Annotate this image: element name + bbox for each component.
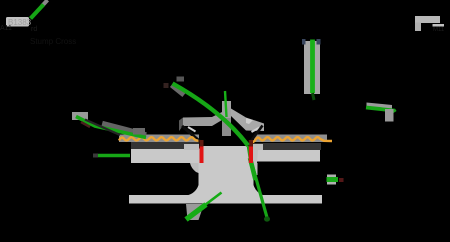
road: fillet light gray near right red bar xyxy=(253,144,263,150)
green: vertical thin line at center stub xyxy=(225,91,227,117)
svg-text:M11: M11 xyxy=(433,27,445,33)
label: top-left diagonal with gray casing stub xyxy=(42,0,48,6)
red bar: right gate (dark top) xyxy=(249,140,253,147)
funnel: left black stroke xyxy=(182,126,200,142)
casing band along west green route xyxy=(102,124,146,136)
faint marks near diagonal tip xyxy=(177,77,185,82)
road top blue-dark marks flanking xyxy=(302,39,306,45)
green: arrow A (fat end) xyxy=(186,205,206,220)
red bar: right gate (bright) xyxy=(249,147,253,164)
funnel: left white streak xyxy=(188,127,196,132)
road: junction mouth vertical road (upper, between gates) xyxy=(204,146,249,164)
road: bottom horizontal road xyxy=(129,195,322,204)
road: east short segment casing xyxy=(367,103,393,110)
green: dark blob at end of route xyxy=(264,216,270,221)
road: left casing band under zigzag xyxy=(119,135,199,143)
road: top-right vertical road casing xyxy=(304,41,320,94)
zigzag: left orange level crossing marks xyxy=(119,137,199,140)
zigzag: right orange level crossing marks xyxy=(250,137,333,146)
ramp: left ramp light section to center xyxy=(183,112,222,126)
green: horizontal stub west of road end xyxy=(93,154,98,158)
road: fillet bottom-right of vertical road xyxy=(254,185,265,196)
red bar: left gate (bright) xyxy=(200,147,204,164)
green: small segment bottom-right with casing xyxy=(327,175,336,185)
road: fillet light gray near left red bar xyxy=(184,144,199,150)
green: west route segment near box xyxy=(72,112,88,120)
svg-text:rd: rd xyxy=(31,26,37,33)
label dash: top-right xyxy=(433,24,445,27)
dark diagonal under west green xyxy=(85,120,120,136)
funnel: right black stroke xyxy=(251,126,263,142)
road: top main road left segment (light surface) xyxy=(131,149,200,164)
green: fat section at top of lower route xyxy=(250,158,256,180)
road: gray stub below east segment xyxy=(385,109,394,122)
road: top main road right dark upper band xyxy=(254,143,321,150)
road: fillet bottom-left of vertical road xyxy=(187,185,199,196)
green: vertical route on top-right road xyxy=(310,40,315,94)
green: east short route line xyxy=(366,108,395,113)
road: top main road left dark upper band xyxy=(131,142,199,149)
green: route continues south-east below junction xyxy=(248,146,268,221)
road: right casing band under zigzag xyxy=(254,135,327,143)
green: dark tail below xyxy=(313,93,315,100)
funnel: right white streak xyxy=(252,128,260,133)
green: arrow A (bottom-left, thin part) xyxy=(205,193,222,206)
label box: top-right gray xyxy=(415,16,440,23)
green: top-left diagonal route xyxy=(31,5,44,19)
green: main diagonal route line (NW to junction) xyxy=(173,84,249,146)
svg-text:A11: A11 xyxy=(0,25,12,32)
light patch on right wing xyxy=(246,118,253,124)
red bar: left gate (dark top) xyxy=(200,140,204,147)
gray patch where west green meets zigzag casing xyxy=(133,128,145,135)
dark red diagonal fragment xyxy=(81,122,90,127)
road: gray stub below bottom road (left of mouth) xyxy=(186,204,204,220)
ramp: left ramp dim west extension xyxy=(179,118,183,132)
svg-text:Stump Cross: Stump Cross xyxy=(30,37,76,46)
road: junction vertical road (lower, full width) xyxy=(199,162,254,196)
road: vertical stub above center xyxy=(222,101,231,119)
label box: top-left gray xyxy=(6,17,29,27)
ramp: right ramp light section from center to east xyxy=(231,109,264,132)
road: top main road right segment (light surface) xyxy=(253,150,320,162)
road: right edge strip below right gate xyxy=(254,163,258,175)
